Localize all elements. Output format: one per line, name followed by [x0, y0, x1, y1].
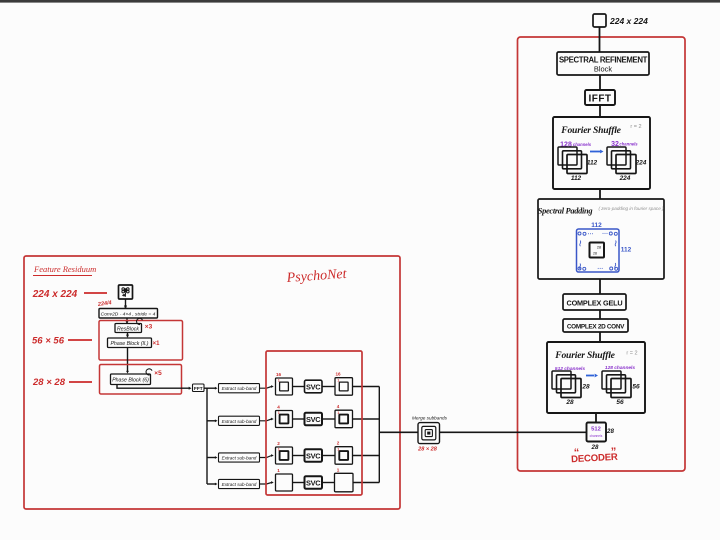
svg-text:28: 28 [591, 444, 599, 451]
svg-text:28: 28 [593, 252, 597, 256]
svg-text:112: 112 [571, 175, 582, 182]
svg-text:Feature Residuum: Feature Residuum [33, 264, 96, 274]
svg-text:Block: Block [594, 65, 613, 74]
svg-text:4: 4 [277, 405, 280, 410]
svg-text:Extract sub-band: Extract sub-band [222, 419, 257, 424]
svg-text:56 × 56: 56 × 56 [32, 336, 65, 347]
svg-text:Spectral Padding: Spectral Padding [538, 207, 593, 216]
svg-text:16: 16 [276, 372, 282, 377]
svg-text:56: 56 [616, 399, 624, 406]
svg-text:28 × 28: 28 × 28 [32, 377, 66, 388]
svg-text:Extract sub-band: Extract sub-band [222, 386, 257, 391]
svg-text:1: 1 [278, 378, 280, 382]
svg-text:( zero-padding in fourier spac: ( zero-padding in fourier space ) [598, 206, 664, 211]
svg-text:channels: channels [619, 141, 638, 146]
svg-text:224: 224 [635, 160, 647, 167]
svg-text:Merge subbands: Merge subbands [412, 416, 448, 421]
svg-text:×1: ×1 [153, 341, 161, 347]
svg-text:Phase Block (II.): Phase Block (II.) [110, 341, 148, 347]
svg-text:Extract sub-band: Extract sub-band [222, 482, 257, 487]
svg-text:×5: ×5 [154, 370, 162, 377]
svg-text:×3: ×3 [145, 324, 153, 331]
svg-text:112: 112 [587, 160, 598, 167]
svg-text:224: 224 [619, 175, 631, 182]
svg-text:28 × 28: 28 × 28 [417, 447, 438, 453]
svg-text:channels: channels [590, 434, 603, 438]
svg-text:4: 4 [337, 404, 340, 409]
svg-text:”: ” [611, 446, 617, 458]
svg-text:SVC: SVC [306, 478, 321, 487]
svg-text:28: 28 [581, 384, 590, 391]
svg-text:16: 16 [335, 372, 341, 377]
svg-text:SVC: SVC [306, 451, 321, 460]
svg-text:1: 1 [337, 378, 339, 382]
svg-text:28: 28 [565, 399, 574, 406]
svg-text:1: 1 [337, 411, 339, 415]
svg-text:Fourier Shuffle: Fourier Shuffle [554, 350, 615, 361]
svg-text:COMPLEX GELU: COMPLEX GELU [567, 298, 623, 307]
svg-text:Extract sub-band: Extract sub-band [222, 456, 257, 461]
svg-text:r = 2: r = 2 [630, 124, 641, 130]
svg-text:28: 28 [597, 246, 601, 250]
svg-text:Phase Block (6): Phase Block (6) [112, 378, 149, 384]
svg-text:r = 2: r = 2 [626, 351, 637, 357]
svg-text:1: 1 [278, 447, 280, 451]
svg-text:Conv2D - 4×4 , stride = 4: Conv2D - 4×4 , stride = 4 [101, 311, 156, 317]
svg-text:COMPLEX 2D CONV: COMPLEX 2D CONV [567, 323, 625, 330]
svg-text:1: 1 [337, 447, 339, 451]
svg-text:SVC: SVC [306, 415, 321, 424]
svg-text:1: 1 [277, 468, 280, 473]
svg-text:channels: channels [573, 142, 592, 147]
svg-text:Fourier Shuffle: Fourier Shuffle [560, 125, 621, 136]
svg-text:224 x 224: 224 x 224 [32, 289, 78, 300]
svg-text:SPECTRAL REFINEMENT: SPECTRAL REFINEMENT [559, 56, 648, 65]
svg-text:224 x 224: 224 x 224 [609, 16, 648, 26]
svg-text:1: 1 [278, 411, 280, 415]
svg-text:56: 56 [632, 384, 640, 391]
svg-text:1: 1 [337, 468, 340, 473]
svg-text:512: 512 [591, 427, 601, 433]
svg-text:112: 112 [621, 247, 632, 254]
svg-text:112: 112 [591, 222, 602, 229]
svg-text:IFFT: IFFT [588, 94, 611, 105]
svg-text:FFT: FFT [194, 386, 203, 392]
svg-text:SVC: SVC [306, 382, 321, 391]
svg-text:ResBlock: ResBlock [117, 326, 139, 332]
svg-text:2: 2 [277, 441, 280, 446]
svg-text:28: 28 [606, 428, 614, 435]
svg-text:2: 2 [337, 441, 340, 446]
